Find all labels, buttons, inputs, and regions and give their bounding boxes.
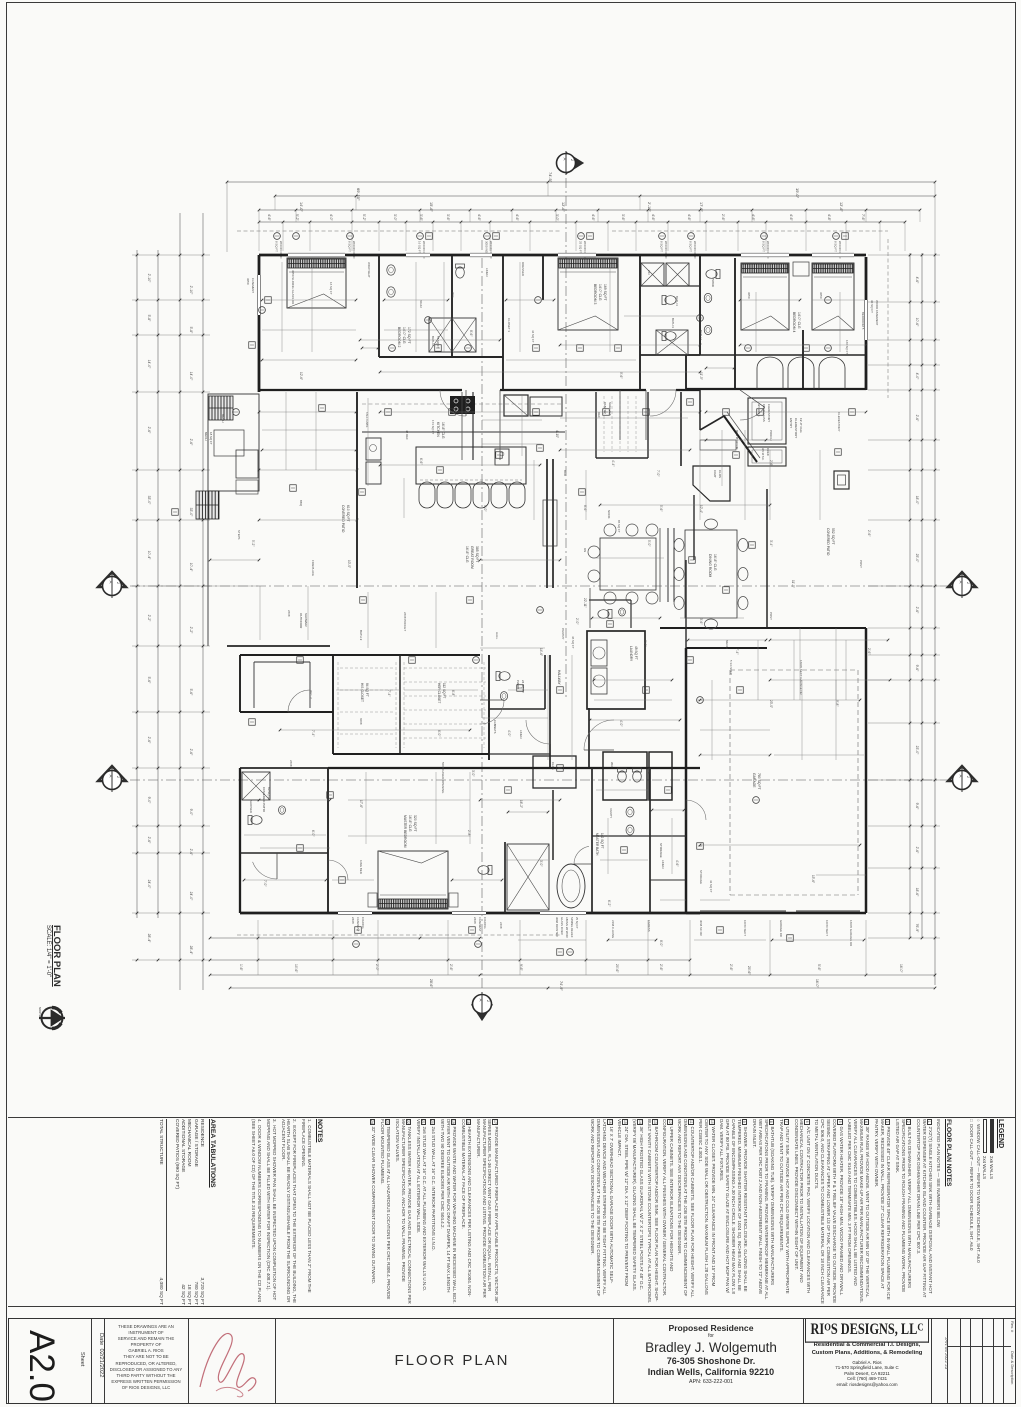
svg-text:33'-0": 33'-0" [147, 496, 151, 505]
svg-text:A: A [959, 775, 964, 778]
svg-text:FOLDING: FOLDING [361, 917, 365, 929]
svg-text:7'-4": 7'-4" [387, 690, 391, 696]
svg-text:5 3/4 STEP: 5 3/4 STEP [729, 660, 733, 675]
svg-text:7'-0": 7'-0" [656, 470, 660, 476]
svg-text:17'-6": 17'-6" [359, 800, 363, 808]
svg-text:LIN: LIN [647, 270, 651, 275]
svg-text:173 SQ FT: 173 SQ FT [431, 420, 435, 434]
svg-text:3068 SC DR: 3068 SC DR [699, 920, 703, 936]
svg-text:COVERED PATIO: COVERED PATIO [262, 787, 266, 813]
svg-text:DN: DN [583, 548, 587, 552]
svg-text:16070 SECT GARAGE DR: 16070 SECT GARAGE DR [799, 660, 803, 695]
svg-text:2'-10": 2'-10" [189, 286, 193, 295]
svg-text:76'-9": 76'-9" [915, 924, 919, 933]
svg-text:DRESSER: DRESSER [521, 262, 525, 276]
svg-text:19'-0" CLG: 19'-0" CLG [799, 418, 803, 433]
svg-text:A: A [563, 158, 568, 161]
svg-text:9'-6": 9'-6" [519, 964, 523, 972]
svg-text:2468: 2468 [499, 922, 503, 929]
svg-text:A: A [109, 581, 114, 584]
svg-text:6068: 6068 [359, 718, 363, 725]
svg-text:14'-6": 14'-6" [539, 648, 543, 656]
svg-text:2'-6": 2'-6" [915, 415, 919, 423]
svg-text:4'-6": 4'-6" [651, 214, 655, 222]
svg-text:2'-0": 2'-0" [575, 618, 579, 624]
svg-text:15'-6": 15'-6" [811, 875, 815, 883]
svg-text:86 SQ FT: 86 SQ FT [617, 520, 621, 533]
svg-text:3'-6": 3'-6" [699, 618, 703, 624]
svg-text:BATH 3: BATH 3 [671, 318, 675, 328]
svg-text:48 SQ FT: 48 SQ FT [634, 646, 638, 660]
svg-text:2668: 2668 [287, 610, 291, 617]
svg-text:NOOK: NOOK [607, 510, 611, 519]
svg-text:WOOD CASEMENT: WOOD CASEMENT [875, 300, 879, 326]
svg-text:5'-2": 5'-2" [295, 214, 299, 222]
svg-text:12'-4": 12'-4" [699, 505, 703, 513]
svg-text:W.C.: W.C. [647, 768, 651, 774]
svg-text:LAUNDRY: LAUNDRY [629, 646, 633, 662]
svg-text:6'-2": 6'-2" [607, 900, 611, 906]
svg-text:25'-0": 25'-0" [915, 554, 919, 563]
svg-text:LINEN: LINEN [661, 860, 665, 869]
svg-text:POST: POST [859, 560, 863, 568]
svg-text:W.C.: W.C. [451, 292, 455, 298]
svg-text:HIS CLOSET: HIS CLOSET [360, 683, 364, 702]
svg-text:BATH 2: BATH 2 [359, 630, 363, 641]
svg-text:2'-6": 2'-6" [729, 964, 733, 972]
svg-text:SHOWER: SHOWER [249, 800, 253, 813]
svg-text:2: 2 [116, 776, 120, 778]
svg-text:3'-4": 3'-4" [769, 540, 773, 546]
svg-text:11'-5": 11'-5" [699, 372, 703, 380]
svg-text:CLOSET 3: CLOSET 3 [507, 318, 511, 332]
svg-text:9'-8": 9'-8" [835, 700, 839, 706]
svg-text:5'-2": 5'-2" [362, 214, 366, 222]
svg-text:610 SQ FT: 610 SQ FT [346, 505, 350, 522]
svg-text:2668: 2668 [289, 760, 293, 767]
svg-text:5'-8": 5'-8" [147, 315, 151, 323]
svg-text:60x42: 60x42 [419, 300, 423, 308]
svg-text:780 SQ FT: 780 SQ FT [757, 773, 761, 790]
svg-text:2: 2 [486, 1000, 490, 1002]
svg-text:16070 GARAGE DR: 16070 GARAGE DR [849, 920, 853, 946]
svg-text:2'-10": 2'-10" [147, 274, 151, 283]
svg-text:5'-6": 5'-6" [817, 964, 821, 972]
svg-text:3'-0": 3'-0" [555, 214, 559, 222]
svg-text:2468: 2468 [473, 917, 477, 924]
svg-text:4'-6": 4'-6" [789, 214, 793, 222]
svg-text:2'-8": 2'-8" [467, 830, 471, 836]
svg-text:MECH: MECH [221, 414, 225, 423]
svg-text:14'-0" CLG: 14'-0" CLG [402, 327, 406, 344]
svg-text:4'-6": 4'-6" [751, 214, 755, 222]
svg-text:4'-6": 4'-6" [675, 860, 679, 866]
svg-text:18'-6": 18'-6" [915, 888, 919, 897]
svg-text:2468: 2468 [351, 917, 355, 924]
svg-text:14'-0": 14'-0" [299, 202, 303, 212]
svg-text:HER CLOSET: HER CLOSET [437, 683, 441, 703]
svg-text:6068 PIVOT DR: 6068 PIVOT DR [735, 430, 739, 449]
svg-text:9'-6": 9'-6" [619, 372, 623, 378]
svg-text:6'-8": 6'-8" [451, 690, 455, 696]
svg-text:57 SQ FT: 57 SQ FT [436, 336, 440, 349]
svg-text:16'-8" CLG: 16'-8" CLG [465, 546, 469, 563]
svg-text:89 SQ FT: 89 SQ FT [267, 787, 271, 801]
svg-text:28'-4": 28'-4" [189, 946, 193, 955]
svg-text:2'-2": 2'-2" [189, 627, 193, 635]
svg-text:10'-6": 10'-6" [915, 318, 919, 327]
svg-text:2'-6": 2'-6" [867, 530, 871, 536]
svg-text:12'-6": 12'-6" [561, 202, 565, 212]
svg-text:172 SQ FT: 172 SQ FT [407, 327, 411, 344]
svg-text:9'-0": 9'-0" [189, 809, 193, 817]
svg-text:142 SQ FT: 142 SQ FT [600, 833, 604, 849]
svg-text:5068 CASED OPENING: 5068 CASED OPENING [441, 762, 445, 794]
svg-text:16'-8" CLG: 16'-8" CLG [713, 554, 717, 571]
svg-text:24'-0": 24'-0" [147, 880, 151, 889]
svg-text:STORAGE: STORAGE [659, 843, 663, 858]
svg-text:FOLDING: FOLDING [483, 917, 487, 929]
svg-text:4'-0": 4'-0" [329, 214, 333, 222]
svg-text:FIXED: FIXED [766, 448, 770, 456]
svg-text:14'-0": 14'-0" [189, 372, 193, 381]
svg-text:46 SQ FT: 46 SQ FT [571, 636, 575, 649]
svg-text:GARAGE: GARAGE [752, 773, 756, 788]
svg-text:STORAGE: STORAGE [699, 870, 703, 884]
svg-text:33'-0": 33'-0" [189, 508, 193, 517]
svg-text:4'-10": 4'-10" [555, 430, 559, 438]
svg-text:8'-6": 8'-6" [469, 330, 473, 336]
svg-text:8 SQ FT: 8 SQ FT [762, 241, 766, 252]
svg-text:BEDROOM 4: BEDROOM 4 [792, 312, 796, 332]
svg-text:BATH 3: BATH 3 [675, 296, 679, 306]
svg-text:HALLWAY: HALLWAY [557, 670, 561, 686]
svg-text:MASTER BEDROOM: MASTER BEDROOM [403, 815, 407, 848]
svg-text:4'-6": 4'-6" [687, 214, 691, 222]
svg-text:4'-6": 4'-6" [591, 214, 595, 222]
svg-text:8 SQ FT: 8 SQ FT [275, 241, 279, 252]
svg-text:NORTH: NORTH [38, 1007, 42, 1017]
svg-text:23'-0": 23'-0" [769, 700, 773, 708]
svg-text:GREAT ROOM: GREAT ROOM [470, 546, 474, 569]
svg-text:2'-6": 2'-6" [147, 427, 151, 435]
svg-text:6'-0": 6'-0" [311, 830, 315, 836]
svg-text:POST: POST [769, 612, 773, 620]
svg-text:CABINETS: CABINETS [493, 720, 497, 734]
svg-text:74'-9": 74'-9" [559, 981, 563, 991]
svg-text:DINING ROOM: DINING ROOM [708, 554, 712, 578]
svg-text:5'-2": 5'-2" [251, 540, 255, 546]
svg-text:KITCHEN: KITCHEN [436, 422, 440, 437]
svg-text:4'-0": 4'-0" [507, 730, 511, 736]
svg-text:TALL CABS: TALL CABS [365, 412, 369, 427]
svg-text:28'-6": 28'-6" [429, 979, 433, 988]
svg-text:7'-6": 7'-6" [861, 214, 865, 222]
svg-text:CLOS: CLOS [551, 762, 555, 770]
svg-text:42 REF: 42 REF [405, 430, 409, 440]
svg-text:8 SQ FT: 8 SQ FT [834, 241, 838, 252]
svg-text:8 SQ FT: 8 SQ FT [348, 241, 352, 252]
svg-text:BEDROOM 3: BEDROOM 3 [593, 284, 597, 304]
svg-text:5'-6": 5'-6" [147, 677, 151, 685]
svg-text:6'-0": 6'-0" [437, 730, 441, 736]
svg-text:9'-0": 9'-0" [483, 505, 487, 511]
svg-text:22'-11": 22'-11" [583, 598, 587, 608]
svg-text:BBQ: BBQ [299, 500, 303, 507]
svg-text:5'-6": 5'-6" [659, 505, 663, 511]
svg-text:166 SQ FT: 166 SQ FT [845, 340, 849, 354]
svg-text:A: A [479, 999, 484, 1002]
svg-text:20'-6": 20'-6" [615, 964, 619, 973]
svg-text:CLOS: CLOS [718, 470, 722, 478]
svg-text:BATH 4: BATH 4 [699, 330, 703, 340]
svg-text:2'-6": 2'-6" [147, 837, 151, 845]
svg-text:3050: 3050 [246, 278, 250, 285]
svg-text:CASEMENT: CASEMENT [356, 917, 360, 932]
svg-text:6'-6": 6'-6" [419, 458, 423, 464]
svg-text:8'-6": 8'-6" [583, 505, 587, 511]
svg-text:STEPS: STEPS [237, 530, 241, 540]
svg-text:BEDROOM 5: BEDROOM 5 [861, 312, 865, 330]
svg-text:PANTRY: PANTRY [561, 628, 565, 640]
svg-text:14'-0": 14'-0" [147, 360, 151, 369]
svg-text:3'-0": 3'-0" [471, 770, 475, 776]
svg-text:20'-6": 20'-6" [747, 966, 751, 975]
svg-text:8'-8": 8'-8" [643, 640, 647, 646]
svg-text:18'-0": 18'-0" [915, 496, 919, 505]
svg-text:2'-6": 2'-6" [189, 849, 193, 857]
svg-text:4'-6": 4'-6" [267, 214, 271, 222]
svg-text:HALL: HALL [495, 632, 499, 640]
svg-text:19'-0": 19'-0" [795, 188, 800, 199]
svg-text:LINEN: LINEN [519, 730, 523, 739]
svg-text:2: 2 [570, 159, 574, 161]
svg-text:16 SQ FT: 16 SQ FT [418, 241, 422, 254]
svg-text:25 SQ FT: 25 SQ FT [575, 917, 579, 929]
svg-text:COVERED PATIO: COVERED PATIO [341, 505, 345, 533]
svg-text:320 SQ FT: 320 SQ FT [413, 815, 417, 832]
svg-text:3'-6": 3'-6" [621, 214, 625, 222]
svg-text:2: 2 [966, 582, 970, 584]
svg-text:LINEN: LINEN [485, 268, 489, 277]
svg-text:BATH 2: BATH 2 [431, 336, 435, 346]
svg-text:7'-4": 7'-4" [311, 730, 315, 736]
svg-text:2'-0": 2'-0" [375, 964, 379, 972]
svg-text:16'-2": 16'-2" [519, 800, 523, 808]
svg-text:10'-6": 10'-6" [294, 964, 298, 973]
svg-text:69'-10": 69'-10" [356, 188, 361, 201]
svg-text:SHOWER: SHOWER [304, 613, 308, 627]
svg-text:7'-0": 7'-0" [263, 880, 267, 886]
svg-text:3050: 3050 [747, 292, 751, 299]
svg-text:9'-6": 9'-6" [915, 803, 919, 811]
svg-text:2: 2 [116, 582, 120, 584]
svg-text:9'-6": 9'-6" [915, 665, 919, 673]
svg-text:PWDR: PWDR [711, 278, 715, 287]
svg-text:5'-8": 5'-8" [189, 327, 193, 335]
svg-text:10'-4": 10'-4" [147, 551, 151, 560]
svg-text:16'-0": 16'-0" [815, 979, 819, 988]
svg-text:2'-6": 2'-6" [867, 648, 871, 654]
svg-text:3'-6": 3'-6" [419, 214, 423, 222]
svg-text:2'-6": 2'-6" [915, 847, 919, 855]
svg-text:15'-6": 15'-6" [429, 202, 433, 212]
svg-text:4'-0": 4'-0" [915, 373, 919, 381]
svg-text:CLERESTORY: CLERESTORY [837, 412, 841, 432]
svg-text:12'-6": 12'-6" [839, 202, 843, 212]
svg-text:W.C.: W.C. [610, 762, 614, 769]
svg-text:4'-6": 4'-6" [477, 214, 481, 222]
svg-text:10'-4": 10'-4" [189, 563, 193, 572]
svg-text:GLASS FIXED: GLASS FIXED [560, 917, 564, 935]
svg-text:42 SQ FT: 42 SQ FT [709, 880, 713, 893]
svg-text:2668 POCKET: 2668 POCKET [403, 612, 407, 631]
svg-text:2'-6": 2'-6" [915, 607, 919, 615]
svg-text:18 SQ FT: 18 SQ FT [209, 432, 213, 445]
svg-text:9'-0": 9'-0" [147, 797, 151, 805]
svg-text:3050 SLIDING GLASS DR: 3050 SLIDING GLASS DR [291, 270, 295, 304]
svg-text:14'-0" CLG: 14'-0" CLG [797, 312, 801, 329]
svg-text:BAR: BAR [563, 470, 567, 476]
svg-text:W.C. 2: W.C. 2 [309, 690, 313, 699]
svg-text:SPRING RELIEF: SPRING RELIEF [570, 917, 574, 938]
svg-text:5'-0": 5'-0" [647, 540, 651, 546]
svg-text:24'-0": 24'-0" [189, 892, 193, 901]
svg-text:8 SQ FT: 8 SQ FT [689, 241, 693, 252]
svg-text:2: 2 [966, 776, 970, 778]
svg-text:2'-6": 2'-6" [769, 460, 773, 466]
svg-text:WDW SEAT: WDW SEAT [367, 262, 371, 278]
svg-text:MASTER BATH: MASTER BATH [595, 833, 599, 856]
svg-text:3050: 3050 [819, 292, 823, 299]
svg-text:3'-0": 3'-0" [393, 214, 397, 222]
svg-text:MECH: MECH [725, 640, 729, 649]
svg-text:7'-4": 7'-4" [735, 648, 739, 654]
svg-text:16070 SECT: 16070 SECT [825, 920, 829, 936]
svg-text:CASEMENT: CASEMENT [478, 917, 482, 932]
svg-text:ENTRY: ENTRY [789, 418, 793, 428]
svg-text:2'-6": 2'-6" [449, 964, 453, 972]
svg-text:23'-0": 23'-0" [915, 746, 919, 755]
svg-text:552 SQ FT: 552 SQ FT [831, 528, 835, 545]
svg-text:CLERESTORY: CLERESTORY [767, 404, 771, 422]
svg-text:OUTDOOR: OUTDOOR [299, 613, 303, 629]
svg-text:5'-6": 5'-6" [189, 689, 193, 697]
svg-text:COAT: COAT [713, 470, 717, 478]
svg-text:30 SQ FT: 30 SQ FT [870, 300, 874, 313]
svg-text:25 SQ FT: 25 SQ FT [579, 241, 583, 254]
svg-text:14'-0" CLG: 14'-0" CLG [598, 284, 602, 301]
svg-text:REF: REF [597, 412, 601, 418]
svg-text:GARAGE DR: GARAGE DR [779, 920, 783, 937]
svg-text:4'-4": 4'-4" [611, 460, 615, 466]
svg-text:3'-6": 3'-6" [446, 214, 450, 222]
svg-text:11'-0": 11'-0" [791, 580, 795, 588]
svg-text:4'-8": 4'-8" [827, 214, 831, 222]
svg-text:MECH: MECH [204, 432, 208, 441]
svg-text:A: A [109, 775, 114, 778]
svg-text:PORCH: PORCH [769, 430, 773, 440]
svg-text:EGRESS: EGRESS [647, 920, 651, 932]
svg-text:3/4 10 S.F.: 3/4 10 S.F. [761, 448, 765, 461]
svg-text:2'-6": 2'-6" [189, 439, 193, 447]
svg-text:FIXED GLASS: FIXED GLASS [762, 404, 766, 422]
svg-text:8 SQ FT: 8 SQ FT [660, 241, 664, 252]
svg-text:2'-2": 2'-2" [147, 615, 151, 623]
svg-text:16 SQ FT: 16 SQ FT [329, 282, 333, 295]
svg-text:VANITY: VANITY [609, 808, 613, 818]
svg-text:169 SQ FT: 169 SQ FT [603, 284, 607, 301]
svg-text:1'-6": 1'-6" [239, 964, 243, 972]
svg-text:FIREPLACE: FIREPLACE [311, 560, 315, 576]
svg-text:8'-0": 8'-0" [659, 940, 663, 946]
svg-text:COVERED PATIO: COVERED PATIO [826, 528, 830, 556]
svg-text:16'-0": 16'-0" [899, 964, 903, 973]
svg-text:16'-8" CLG: 16'-8" CLG [441, 422, 445, 439]
svg-text:CASEMENT: CASEMENT [251, 278, 255, 293]
svg-text:KING BED: KING BED [359, 860, 363, 874]
svg-text:3068 FROSTED: 3068 FROSTED [555, 917, 559, 937]
svg-text:16'-8" CLG: 16'-8" CLG [408, 815, 412, 832]
svg-text:2'-6": 2'-6" [721, 214, 725, 222]
svg-text:4'-6": 4'-6" [915, 277, 919, 285]
svg-text:3'-0": 3'-0" [539, 860, 543, 866]
svg-text:2'-6": 2'-6" [659, 964, 663, 972]
svg-text:2'-6": 2'-6" [189, 749, 193, 757]
svg-text:10'-0": 10'-0" [347, 560, 351, 568]
svg-text:4'-0": 4'-0" [619, 720, 623, 726]
svg-text:CLERESTORY: CLERESTORY [794, 418, 798, 438]
svg-text:12'-6": 12'-6" [299, 372, 303, 380]
svg-text:2'-6": 2'-6" [147, 737, 151, 745]
svg-text:44 SQ FT: 44 SQ FT [531, 330, 535, 343]
svg-text:A: A [959, 581, 964, 584]
svg-text:ABOVE W/ WOD: ABOVE W/ WOD [565, 917, 569, 938]
svg-text:16070 SECT: 16070 SECT [743, 920, 747, 936]
svg-text:385 SQ FT: 385 SQ FT [475, 546, 479, 563]
svg-text:28'-4": 28'-4" [147, 934, 151, 943]
svg-text:2468 C-HUNG: 2468 C-HUNG [611, 920, 615, 938]
svg-text:4'-6": 4'-6" [515, 214, 519, 222]
